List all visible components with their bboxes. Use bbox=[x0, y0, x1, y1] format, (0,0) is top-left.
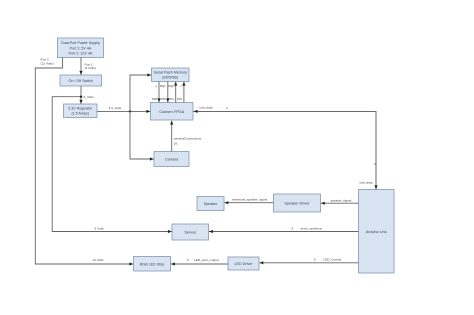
svg-text:(1.5 Amps): (1.5 Amps) bbox=[71, 112, 89, 116]
svg-text:Camera: Camera bbox=[165, 158, 179, 162]
wire: 3.3V branch to Camera bbox=[130, 111, 154, 159]
block: Camera bbox=[154, 152, 189, 167]
wire: Port 1 (5 Volts), power supply to switch bbox=[81, 58, 96, 75]
wire: SPI S, FPGA pin P38 to flash bbox=[152, 82, 159, 103]
wire: cameraConnections 16, camera to FPGA bbox=[172, 121, 202, 152]
svg-text:Port 1: 5V 4A: Port 1: 5V 4A bbox=[70, 46, 92, 50]
svg-text:(12 Volts): (12 Volts) bbox=[41, 62, 54, 66]
svg-text:P38: P38 bbox=[152, 97, 158, 101]
svg-text:5: 5 bbox=[292, 227, 294, 231]
svg-text:P60: P60 bbox=[161, 97, 167, 101]
wire: 3.3V branch to Serial Flash Memory bbox=[130, 75, 151, 111]
svg-text:Custom FPGA: Custom FPGA bbox=[159, 109, 184, 114]
svg-text:2: 2 bbox=[374, 162, 376, 166]
block: Speaker Driver bbox=[274, 194, 321, 212]
svg-text:Arduino Uno: Arduino Uno bbox=[366, 230, 387, 234]
block: Custom FPGA bbox=[151, 103, 194, 121]
svg-text:P64: P64 bbox=[169, 97, 175, 101]
svg-text:uart_data: uart_data bbox=[360, 181, 373, 185]
block: Dual-Port Power Supply bbox=[58, 38, 104, 58]
wire: 5_Volts, switch to regulator bbox=[81, 86, 94, 104]
block: LED Driver bbox=[228, 257, 259, 270]
svg-text:RGB LED Strip: RGB LED Strip bbox=[140, 262, 165, 266]
wire: servo_positions 5, Arduino to Servos bbox=[209, 227, 359, 232]
svg-text:12 Volts: 12 Volts bbox=[93, 258, 104, 262]
block: Arduino Uno bbox=[359, 190, 395, 274]
svg-text:LED Driver: LED Driver bbox=[234, 262, 253, 266]
svg-text:Speaker Driver: Speaker Driver bbox=[284, 202, 310, 206]
svg-text:P70: P70 bbox=[177, 97, 183, 101]
svg-text:2: 2 bbox=[226, 106, 228, 110]
svg-text:Dual-Port Power Supply: Dual-Port Power Supply bbox=[61, 41, 100, 45]
svg-text:Servos: Servos bbox=[184, 231, 196, 235]
wire: Port 2 (12 Volts), power supply to RGB LED strip bbox=[35, 58, 133, 265]
svg-text:DQ0: DQ0 bbox=[168, 84, 174, 88]
svg-text:3.3V Regulator: 3.3V Regulator bbox=[68, 107, 93, 111]
block: Servos bbox=[172, 224, 209, 240]
wire: LED_pwm_output 3, LED Driver to RGB LED strip bbox=[171, 258, 228, 264]
wire: LED_Control 6, Arduino to LED Driver bbox=[260, 257, 359, 263]
wire: SPI DQ0, FPGA pin P64 to flash bbox=[168, 82, 176, 103]
wire: enhanced_speaker_signal, Speaker Driver to Speaker bbox=[225, 198, 274, 203]
block: RGB LED Strip bbox=[134, 257, 171, 272]
svg-text:6: 6 bbox=[314, 257, 316, 261]
wire: speaker_signal, Arduino to Speaker Driver bbox=[321, 198, 359, 203]
svg-text:(M25P80): (M25P80) bbox=[162, 76, 178, 80]
svg-text:On / Off Switch: On / Off Switch bbox=[69, 79, 93, 83]
svg-text:(5 Volts): (5 Volts) bbox=[85, 66, 96, 70]
svg-text:cameraConnections: cameraConnections bbox=[174, 136, 202, 140]
svg-text:enhanced_speaker_signal: enhanced_speaker_signal bbox=[232, 198, 267, 202]
svg-text:5 Volts: 5 Volts bbox=[95, 226, 105, 230]
svg-text:3: 3 bbox=[187, 258, 189, 262]
block: 3.3V Regulator bbox=[64, 104, 98, 118]
svg-text:5_Volts: 5_Volts bbox=[84, 95, 95, 99]
wire: uart_data 2, FPGA to Arduino Uno bbox=[193, 106, 376, 190]
svg-text:Serial Flash Memory: Serial Flash Memory bbox=[154, 71, 188, 75]
wire: SPI C clock, FPGA pin P70 to flash bbox=[177, 82, 184, 103]
svg-text:Port 2: 12V 4A: Port 2: 12V 4A bbox=[69, 51, 93, 55]
svg-text:3.3_Volts: 3.3_Volts bbox=[109, 106, 122, 110]
svg-text:Speaker: Speaker bbox=[204, 202, 218, 206]
block: Speaker bbox=[197, 197, 224, 211]
wire: 3.3_Volts, regulator to FPGA bbox=[97, 106, 150, 112]
svg-text:16: 16 bbox=[174, 142, 178, 146]
block: Serial Flash Memory (M25P80) bbox=[152, 68, 190, 82]
wire: 5 Volts branch to Servos bbox=[52, 96, 172, 232]
svg-text:DQ1: DQ1 bbox=[160, 84, 166, 88]
svg-text:LED_pwm_output: LED_pwm_output bbox=[194, 258, 219, 262]
svg-text:servo_positions: servo_positions bbox=[301, 227, 323, 231]
wire: SPI DQ1, flash to FPGA pin P60 bbox=[160, 82, 168, 103]
svg-text:LED_Control: LED_Control bbox=[324, 257, 342, 261]
svg-text:uart_data: uart_data bbox=[200, 106, 213, 110]
svg-text:speaker_signal: speaker_signal bbox=[331, 198, 352, 202]
block: On / Off Switch bbox=[60, 75, 102, 86]
